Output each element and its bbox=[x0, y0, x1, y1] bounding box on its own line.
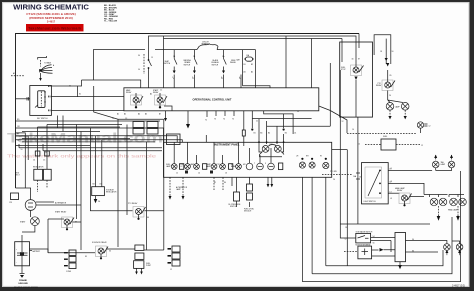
alternator circle bbox=[25, 200, 67, 211]
wire alternator to vertical bbox=[36, 204, 81, 206]
svg-text:A2: A2 bbox=[124, 113, 126, 116]
svg-text:A2: A2 bbox=[150, 93, 152, 96]
gauge labels bbox=[166, 156, 322, 175]
svg-text:87: 87 bbox=[358, 59, 360, 61]
svg-text:54: 54 bbox=[373, 236, 375, 238]
svg-text:15: 15 bbox=[151, 57, 153, 59]
vertical from bus A to right box bbox=[358, 34, 360, 49]
lamp arc link bbox=[269, 145, 277, 147]
svg-text:OPERATIONAL CONTROL UNIT: OPERATIONAL CONTROL UNIT bbox=[193, 97, 232, 101]
headlights right pair bbox=[448, 195, 466, 221]
svg-text:30: 30 bbox=[138, 55, 140, 57]
inline connectors on left drops bbox=[35, 151, 40, 156]
svg-text:14: 14 bbox=[352, 129, 354, 131]
starter connector bbox=[20, 210, 39, 232]
svg-text:FUEL: FUEL bbox=[383, 136, 387, 138]
svg-text:30: 30 bbox=[69, 86, 71, 88]
stub and label 24 bbox=[387, 91, 389, 99]
svg-text:L2: L2 bbox=[390, 181, 392, 183]
svg-text:D4: D4 bbox=[98, 201, 100, 203]
svg-text:A1: A1 bbox=[244, 71, 246, 74]
OCU bottom pin labels bbox=[117, 113, 161, 116]
svg-text:NEGATIVE GROUND SYSTEM: NEGATIVE GROUND SYSTEM bbox=[14, 286, 38, 289]
svg-text:A1: A1 bbox=[13, 72, 15, 75]
svg-text:REGULATOR: REGULATOR bbox=[33, 166, 44, 169]
interlock module bbox=[395, 233, 443, 270]
battery wires bbox=[30, 249, 49, 253]
svg-text:The watermark only appears on: The watermark only appears on this sampl… bbox=[7, 154, 156, 160]
wire color legend bbox=[104, 4, 119, 22]
svg-text:20: 20 bbox=[333, 179, 335, 181]
svg-text:30: 30 bbox=[412, 239, 414, 241]
vertical x=163.5 to OCU bbox=[163, 36, 165, 88]
voltage regulator bbox=[92, 184, 117, 204]
svg-text:WIRING SCHEMATIC: WIRING SCHEMATIC bbox=[13, 3, 89, 12]
cold start relay bbox=[48, 211, 81, 231]
svg-text:1: 1 bbox=[172, 77, 173, 79]
lower horizontal y=80 bbox=[82, 80, 141, 88]
svg-text:T3: T3 bbox=[214, 119, 216, 121]
pto indicator lamps pair bbox=[259, 134, 284, 152]
svg-text:RELAY: RELAY bbox=[376, 84, 382, 87]
svg-text:24: 24 bbox=[389, 95, 391, 97]
wire lower feed lines bbox=[19, 148, 162, 151]
wire key box bottom drops bbox=[58, 116, 64, 132]
resistor on x=243.8 bbox=[243, 111, 245, 130]
svg-text:PTO RELAY: PTO RELAY bbox=[128, 202, 138, 205]
svg-text:C3: C3 bbox=[125, 118, 127, 120]
split to indicator lamps bbox=[388, 98, 403, 103]
svg-text:3: 3 bbox=[221, 77, 222, 79]
svg-text:56: 56 bbox=[373, 243, 375, 245]
svg-text:D5: D5 bbox=[100, 184, 102, 186]
svg-text:12: 12 bbox=[358, 144, 360, 146]
svg-text:WHEEL: WHEEL bbox=[230, 62, 236, 64]
svg-text:C1: C1 bbox=[160, 90, 162, 92]
svg-text:C2: C2 bbox=[112, 118, 114, 120]
fan-out connector bbox=[38, 56, 55, 81]
red watermark box bbox=[26, 24, 84, 31]
svg-text:30: 30 bbox=[352, 59, 354, 61]
OCU bottom stubs bbox=[164, 111, 207, 143]
liquid level module diodes bbox=[244, 177, 254, 212]
dashed pto row y=175 bbox=[322, 171, 352, 175]
svg-text:B4: B4 bbox=[268, 133, 270, 135]
svg-text:GROUND: GROUND bbox=[18, 283, 28, 285]
bus D switch feed row bbox=[155, 49, 243, 51]
OCU pin stubs rising bbox=[172, 75, 241, 88]
headlight relay bbox=[395, 187, 412, 206]
svg-text:T5: T5 bbox=[232, 119, 234, 121]
svg-text:RECT: RECT bbox=[15, 175, 20, 177]
svg-text:REGULATOR: REGULATOR bbox=[106, 191, 117, 194]
svg-text:86: 86 bbox=[412, 250, 414, 252]
svg-text:A7: A7 bbox=[159, 113, 161, 116]
svg-text:PTO SW: PTO SW bbox=[330, 171, 337, 173]
svg-text:30: 30 bbox=[109, 251, 111, 253]
below IP drops bbox=[169, 177, 233, 199]
oil pressure fuse bbox=[228, 177, 241, 208]
svg-text:KEY SWITCH: KEY SWITCH bbox=[37, 118, 48, 120]
svg-text:BREAKER: BREAKER bbox=[202, 42, 211, 45]
wire hook to right bottom lamps bbox=[443, 241, 460, 244]
vertical x=286 to OCU bbox=[285, 36, 287, 88]
small arrows right bbox=[267, 177, 269, 184]
svg-text:C5: C5 bbox=[43, 160, 45, 162]
svg-text:PUMP: PUMP bbox=[146, 265, 152, 267]
bus C bbox=[164, 38, 343, 40]
svg-text:87: 87 bbox=[75, 222, 77, 224]
headlights left pair bbox=[409, 195, 447, 221]
bottom bus G bbox=[326, 250, 443, 266]
solenoid relay bbox=[92, 241, 108, 259]
brake switch drop bbox=[184, 50, 198, 80]
key switch wires bbox=[51, 80, 81, 86]
right gauge drops bbox=[301, 177, 303, 281]
right inner box (339.7-372.5) bbox=[340, 42, 373, 117]
connector stack left bbox=[64, 250, 76, 273]
svg-text:A5: A5 bbox=[145, 113, 147, 116]
svg-text:2-4917 (2/2): 2-4917 (2/2) bbox=[452, 285, 465, 288]
bottom bus E bbox=[302, 171, 460, 282]
ip border pin dots bbox=[258, 141, 260, 143]
ip connector block bbox=[167, 134, 181, 145]
svg-text:HEAD LAMP: HEAD LAMP bbox=[448, 209, 459, 212]
svg-text:S1: S1 bbox=[79, 94, 81, 96]
right bottom lamps bbox=[444, 244, 463, 256]
harness connector boxes bbox=[133, 122, 144, 128]
svg-text:12: 12 bbox=[421, 145, 423, 147]
svg-text:10: 10 bbox=[21, 149, 23, 151]
svg-text:16: 16 bbox=[225, 173, 227, 175]
light switch wires right bbox=[388, 169, 432, 171]
wire pto relay to vertical bbox=[145, 210, 164, 212]
svg-text:RELAY: RELAY bbox=[153, 91, 159, 94]
connector pins row bbox=[251, 128, 296, 135]
wire headlamp ground bus bbox=[340, 223, 430, 225]
svg-text:S2: S2 bbox=[214, 182, 216, 184]
inner box corner at (93.4,49.6) bbox=[93, 50, 145, 80]
svg-text:18: 18 bbox=[380, 51, 382, 53]
splice on left wire bbox=[16, 98, 30, 100]
fuse column box x=242.5-259 bbox=[237, 50, 271, 88]
svg-text:86: 86 bbox=[147, 217, 149, 219]
connector rects row2 bbox=[133, 129, 144, 135]
svg-text:B4: B4 bbox=[93, 184, 95, 186]
svg-text:24: 24 bbox=[294, 133, 296, 135]
diagonal wire from OCU to right bbox=[319, 106, 347, 133]
connector column mid bottom bbox=[168, 246, 181, 271]
svg-text:LIGHT SWITCH: LIGHT SWITCH bbox=[364, 201, 377, 203]
instrument panel box bbox=[164, 142, 332, 177]
svg-text:A1: A1 bbox=[117, 113, 119, 116]
svg-text:J2: J2 bbox=[170, 269, 172, 271]
wire ip right edge link bbox=[332, 150, 348, 266]
svg-text:ALTERNATOR: ALTERNATOR bbox=[55, 202, 67, 205]
svg-text:B2: B2 bbox=[285, 133, 287, 135]
lamp 1 bbox=[386, 103, 394, 120]
svg-text:52: 52 bbox=[345, 239, 347, 241]
vertical x=342 drop bbox=[341, 39, 343, 63]
svg-text:85: 85 bbox=[390, 75, 392, 77]
svg-text:(PRINTED SEPTEMBER 2010): (PRINTED SEPTEMBER 2010) bbox=[29, 16, 73, 20]
svg-text:YL - YELLOW: YL - YELLOW bbox=[104, 21, 117, 23]
svg-text:23: 23 bbox=[297, 111, 299, 113]
OCU right lamp feed lines bbox=[264, 111, 293, 128]
OCU bottom extra stubs bbox=[216, 111, 234, 116]
svg-text:F: F bbox=[265, 163, 266, 165]
svg-text:BAT: BAT bbox=[237, 59, 240, 62]
OCU relay 1 bbox=[126, 89, 143, 109]
svg-text:SWITCH: SWITCH bbox=[212, 64, 219, 66]
seat switch drop bbox=[164, 50, 178, 80]
svg-text:18: 18 bbox=[345, 227, 347, 229]
svg-text:INSTRUMENT PANEL: INSTRUMENT PANEL bbox=[214, 144, 240, 147]
svg-text:SWITCH: SWITCH bbox=[184, 64, 191, 66]
bundle verticals to instrument panel bbox=[77, 125, 133, 220]
svg-text:4: 4 bbox=[239, 77, 240, 79]
blade engage lamp right bbox=[417, 122, 430, 128]
svg-text:12: 12 bbox=[176, 173, 178, 175]
OCU box bbox=[124, 88, 319, 111]
wire bundle from left bbox=[16, 121, 183, 188]
svg-text:2-4917: 2-4917 bbox=[47, 19, 56, 23]
svg-text:L3: L3 bbox=[390, 198, 392, 200]
battery bbox=[14, 235, 41, 289]
harness outline left border and top bus A bbox=[16, 34, 360, 189]
scattered pin labels bbox=[17, 86, 392, 259]
svg-text:12: 12 bbox=[429, 126, 431, 128]
svg-text:YL: YL bbox=[17, 140, 19, 142]
fuel gauge module bbox=[365, 136, 423, 150]
svg-text:L1: L1 bbox=[390, 168, 392, 170]
right bracket 374-391 bbox=[374, 35, 391, 56]
pto relay mid bbox=[128, 202, 146, 220]
svg-text:MODULE: MODULE bbox=[244, 211, 252, 213]
svg-text:C4: C4 bbox=[33, 160, 35, 162]
svg-text:T2: T2 bbox=[205, 120, 207, 122]
svg-text:A4: A4 bbox=[138, 113, 140, 116]
lamp lower hooks bbox=[260, 152, 285, 157]
tow switch boxes right bottom bbox=[345, 231, 396, 259]
svg-text:B2: B2 bbox=[251, 64, 253, 66]
svg-text:SWITCH: SWITCH bbox=[230, 206, 237, 208]
svg-text:CONN: CONN bbox=[66, 271, 72, 273]
dashed stub on left border bbox=[11, 75, 24, 77]
left fuse vertical x=357.9 bbox=[357, 117, 359, 224]
svg-text:14: 14 bbox=[198, 173, 200, 175]
svg-text:S4: S4 bbox=[224, 182, 226, 184]
svg-text:SWITCH: SWITCH bbox=[164, 63, 171, 65]
svg-text:TO MAIN: TO MAIN bbox=[44, 62, 52, 65]
svg-text:50: 50 bbox=[138, 69, 140, 71]
lamp 2 bbox=[395, 103, 409, 120]
svg-text:B1: B1 bbox=[244, 64, 246, 66]
fuel solenoid stack bbox=[134, 245, 152, 275]
svg-text:14: 14 bbox=[45, 152, 47, 154]
gauge feed stubs bbox=[174, 142, 271, 163]
gauge row bbox=[171, 158, 329, 170]
light switch box bbox=[362, 163, 389, 204]
blade switch drop bbox=[212, 50, 227, 80]
svg-text:L3: L3 bbox=[390, 191, 392, 193]
svg-text:B1: B1 bbox=[254, 133, 256, 135]
bottom bus F bbox=[312, 217, 452, 274]
tail lamps bbox=[432, 155, 454, 171]
circuit breaker bump bbox=[197, 44, 218, 50]
key feed switch cluster at x=148 bbox=[138, 54, 153, 88]
misc verticals mid bottom bbox=[81, 119, 164, 250]
diode block bbox=[380, 51, 393, 64]
svg-text:16: 16 bbox=[392, 51, 394, 53]
svg-text:21: 21 bbox=[256, 121, 258, 123]
svg-text:START RELAY: START RELAY bbox=[55, 211, 67, 214]
svg-text:TakeManual.com: TakeManual.com bbox=[7, 131, 163, 146]
OCU relay 2 bbox=[153, 89, 172, 111]
svg-text:START: START bbox=[20, 221, 25, 224]
key switch box bbox=[30, 85, 52, 120]
svg-text:12: 12 bbox=[342, 121, 344, 123]
fuel shutoff relay in box bbox=[341, 59, 364, 118]
bus B bbox=[149, 36, 357, 60]
svg-text:2: 2 bbox=[192, 77, 193, 79]
svg-text:BEAM: BEAM bbox=[231, 165, 236, 168]
connector on left edge bbox=[9, 193, 19, 204]
pto relay right bbox=[376, 63, 395, 91]
svg-text:BATTERY: BATTERY bbox=[33, 250, 42, 253]
svg-text:SOLENOID RELAY: SOLENOID RELAY bbox=[92, 241, 107, 244]
svg-text:85: 85 bbox=[85, 256, 87, 258]
svg-text:16: 16 bbox=[359, 177, 361, 179]
vertical x=311.6 to OCU right bbox=[311, 39, 313, 88]
left border to alternator bbox=[16, 188, 31, 200]
long verticals right of OCU bbox=[329, 63, 331, 126]
svg-text:T: T bbox=[254, 163, 255, 165]
wire fuel pump to vertical bbox=[144, 249, 164, 251]
wire starter feed vertical bbox=[47, 219, 49, 253]
svg-text:FRAME: FRAME bbox=[19, 279, 27, 282]
svg-text:RELAY: RELAY bbox=[126, 91, 132, 94]
svg-text:A2: A2 bbox=[251, 71, 253, 74]
svg-text:+: + bbox=[16, 249, 17, 251]
dashed feed to mow switch bbox=[344, 251, 358, 253]
dashed link row y=133 bbox=[347, 133, 416, 135]
svg-text:B4: B4 bbox=[260, 133, 262, 135]
svg-text:T4: T4 bbox=[223, 119, 225, 121]
fuel pump pair boxes bbox=[33, 166, 51, 181]
svg-text:RELAY: RELAY bbox=[397, 189, 403, 192]
svg-text:TakeManual.com Watermark: TakeManual.com Watermark bbox=[28, 26, 81, 30]
